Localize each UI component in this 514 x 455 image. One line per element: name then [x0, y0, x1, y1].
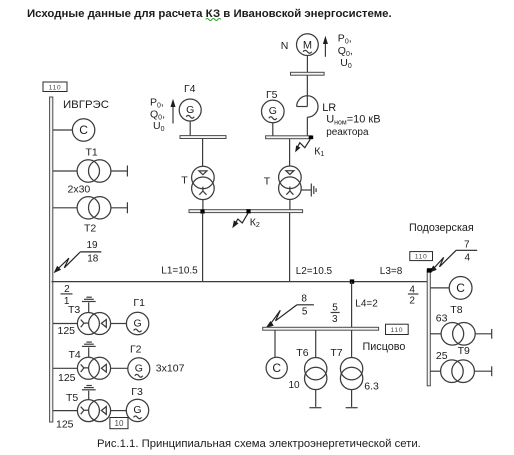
svg-text:Исходные данные для расчета КЗ: Исходные данные для расчета КЗ в Ивановс… [27, 8, 392, 20]
svg-text:3: 3 [332, 314, 338, 325]
svg-text:G: G [269, 105, 277, 117]
svg-text:C: C [456, 281, 465, 295]
svg-text:5: 5 [302, 306, 308, 317]
svg-text:L2=10.5: L2=10.5 [296, 266, 333, 277]
svg-text:5: 5 [332, 302, 338, 313]
svg-text:7: 7 [464, 240, 470, 251]
svg-text:C: C [272, 361, 281, 375]
svg-text:Подозерская: Подозерская [409, 222, 474, 234]
svg-text:T1: T1 [86, 147, 98, 159]
svg-text:T2: T2 [84, 223, 96, 235]
svg-text:LR: LR [322, 102, 336, 114]
svg-text:8: 8 [301, 293, 307, 304]
svg-text:G: G [135, 363, 143, 375]
svg-text:P0,: P0, [338, 33, 352, 46]
svg-text:Г4: Г4 [184, 83, 196, 95]
svg-text:T: T [264, 175, 271, 187]
svg-text:63: 63 [436, 313, 448, 325]
svg-text:К2: К2 [250, 217, 260, 230]
svg-text:M: M [303, 39, 312, 51]
svg-text:T6: T6 [296, 347, 308, 359]
svg-text:2x30: 2x30 [68, 183, 91, 195]
svg-text:18: 18 [87, 253, 99, 264]
svg-text:L4=2: L4=2 [355, 299, 378, 310]
svg-text:125: 125 [56, 418, 74, 430]
svg-text:T9: T9 [458, 345, 470, 357]
svg-text:4: 4 [465, 252, 471, 263]
svg-text:L3=8: L3=8 [380, 266, 403, 277]
svg-text:G: G [186, 104, 194, 116]
svg-text:Г5: Г5 [266, 89, 278, 101]
svg-text:10: 10 [115, 419, 124, 428]
svg-text:T3: T3 [68, 304, 80, 316]
svg-text:U0: U0 [340, 57, 352, 70]
svg-text:110: 110 [390, 327, 403, 334]
svg-text:2: 2 [409, 296, 415, 307]
svg-text:T4: T4 [69, 349, 81, 361]
svg-text:T5: T5 [66, 392, 78, 404]
svg-text:N: N [281, 40, 289, 52]
svg-text:T8: T8 [450, 304, 462, 316]
svg-text:U0: U0 [153, 120, 165, 133]
svg-text:6.3: 6.3 [364, 380, 379, 392]
svg-text:3x107: 3x107 [156, 362, 185, 374]
svg-text:125: 125 [58, 372, 76, 384]
svg-text:T7: T7 [330, 347, 342, 359]
svg-text:C: C [79, 123, 88, 137]
svg-text:19: 19 [86, 240, 98, 251]
svg-text:L1=10.5: L1=10.5 [161, 265, 198, 276]
svg-text:110: 110 [415, 254, 428, 261]
svg-text:К1: К1 [314, 146, 324, 159]
svg-text:Рис.1.1. Принципиальная схема: Рис.1.1. Принципиальная схема электроэне… [97, 438, 421, 450]
svg-text:G: G [134, 317, 142, 329]
svg-text:T: T [181, 175, 188, 187]
svg-text:ИВГРЭС: ИВГРЭС [63, 99, 109, 111]
svg-text:Г2: Г2 [130, 344, 142, 356]
svg-text:10: 10 [289, 380, 301, 391]
svg-text:25: 25 [436, 350, 448, 362]
svg-text:125: 125 [58, 325, 76, 337]
svg-text:G: G [133, 404, 141, 416]
svg-text:Г1: Г1 [133, 297, 145, 309]
svg-text:Писцово: Писцово [363, 341, 406, 353]
svg-text:реактора: реактора [326, 127, 369, 138]
svg-text:Uном=10 кВ: Uном=10 кВ [326, 114, 380, 127]
svg-text:Г3: Г3 [131, 386, 143, 398]
svg-text:110: 110 [49, 85, 62, 92]
